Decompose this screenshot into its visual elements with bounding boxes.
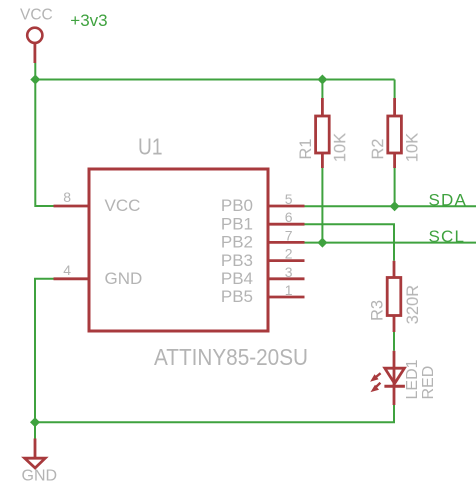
wire SDA net bbox=[305, 205, 476, 207]
svg-text:1: 1 bbox=[285, 282, 293, 298]
svg-text:7: 7 bbox=[285, 227, 293, 243]
svg-text:PB3: PB3 bbox=[221, 251, 253, 270]
svg-text:LED1: LED1 bbox=[404, 359, 421, 399]
pin 8 VCC stub bbox=[54, 205, 90, 208]
svg-text:6: 6 bbox=[285, 209, 293, 225]
svg-text:SDA: SDA bbox=[429, 190, 468, 209]
svg-text:PB2: PB2 bbox=[221, 233, 253, 252]
wire R1 bottom to SCL junction bbox=[321, 168, 323, 243]
pin 7 PB2 stub bbox=[268, 241, 305, 244]
resistor R2 bbox=[388, 98, 402, 168]
junction SCL / R1 bbox=[317, 238, 327, 248]
svg-text:ATTINY85-20SU: ATTINY85-20SU bbox=[154, 344, 308, 370]
wire R2 top corner from rail bbox=[394, 80, 396, 99]
junction SDA / R2 bbox=[390, 201, 400, 211]
svg-text:4: 4 bbox=[63, 262, 71, 278]
svg-text:SCL: SCL bbox=[429, 227, 466, 246]
LED emission arrows bbox=[370, 373, 381, 392]
svg-text:U1: U1 bbox=[138, 133, 163, 159]
supply symbol VCC bbox=[20, 6, 53, 63]
IC U1 body bbox=[89, 169, 268, 331]
svg-text:+3v3: +3v3 bbox=[70, 11, 107, 30]
wire SCL net bbox=[305, 242, 476, 244]
resistor R3 bbox=[387, 261, 401, 332]
svg-text:PB0: PB0 bbox=[221, 196, 253, 215]
pin 4 GND stub bbox=[54, 277, 90, 280]
svg-text:GND: GND bbox=[105, 269, 143, 288]
wire LED to bottom rail bbox=[35, 405, 394, 422]
wire PB1 to R3 bbox=[305, 224, 395, 261]
wire R2 bottom to SDA junction bbox=[394, 168, 396, 206]
svg-text:R3: R3 bbox=[369, 300, 387, 321]
wire top VCC rail horizontal bbox=[35, 79, 394, 81]
junction GND rail bbox=[30, 417, 40, 427]
svg-text:3: 3 bbox=[285, 264, 293, 280]
svg-text:PB4: PB4 bbox=[221, 269, 253, 288]
svg-text:VCC: VCC bbox=[20, 6, 53, 23]
pin 1 PB5 stub bbox=[268, 296, 305, 299]
svg-text:10K: 10K bbox=[331, 133, 349, 162]
pin 6 PB1 stub bbox=[268, 223, 305, 226]
svg-text:PB1: PB1 bbox=[221, 214, 253, 233]
wire junction to GND symbol bbox=[34, 422, 36, 438]
svg-text:VCC: VCC bbox=[105, 196, 141, 215]
svg-text:R1: R1 bbox=[297, 139, 315, 160]
svg-text:5: 5 bbox=[285, 191, 293, 207]
ground symbol GND bbox=[22, 439, 58, 485]
wire R3 to LED bbox=[393, 332, 395, 351]
svg-text:PB5: PB5 bbox=[221, 287, 253, 306]
svg-text:R2: R2 bbox=[369, 139, 387, 160]
junction at R1 top bbox=[317, 75, 327, 85]
svg-text:2: 2 bbox=[285, 246, 293, 262]
svg-text:GND: GND bbox=[22, 468, 58, 485]
wire VCC net vertical from supply to top rail bbox=[34, 63, 36, 80]
resistor R1 bbox=[316, 98, 330, 168]
junction at VCC rail left bbox=[30, 75, 40, 85]
pin 2 PB3 stub bbox=[268, 259, 305, 262]
pin 3 PB4 stub bbox=[268, 277, 305, 280]
wire R1 top lead green bbox=[321, 80, 323, 99]
pin 5 PB0 stub bbox=[268, 205, 305, 208]
svg-text:RED: RED bbox=[420, 366, 437, 400]
svg-text:320R: 320R bbox=[404, 285, 422, 325]
svg-text:8: 8 bbox=[63, 189, 71, 205]
LED LED1 bbox=[384, 351, 405, 405]
wire VCC net down-left to pin 8 bbox=[35, 80, 53, 207]
wire GND net from pin 4 bbox=[35, 279, 54, 423]
svg-text:10K: 10K bbox=[404, 133, 422, 162]
